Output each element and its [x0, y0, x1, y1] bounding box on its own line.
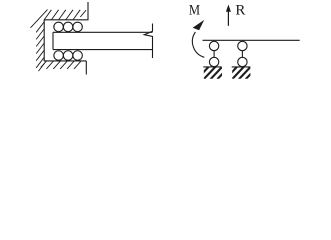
force R arrow shaft	[227, 11, 229, 26]
support 1 ground line	[203, 66, 221, 68]
floor hatching	[41, 61, 81, 69]
support 1 link	[213, 51, 215, 58]
support 2 link	[241, 51, 243, 58]
top roller 3	[73, 22, 83, 32]
svg-text:M: M	[189, 3, 200, 19]
bottom roller 1	[54, 51, 64, 61]
ceiling hatching	[31, 10, 87, 28]
beam left edge	[52, 32, 54, 49]
floor right edge	[85, 61, 87, 75]
beam top line	[53, 31, 153, 33]
wall hatching	[36, 22, 44, 71]
support 2 ground line	[232, 66, 251, 68]
svg-text:R: R	[235, 3, 245, 19]
support 2 bottom circle	[238, 57, 247, 66]
moment arc	[192, 32, 204, 57]
force R arrowhead	[226, 5, 231, 12]
wall line	[43, 20, 45, 61]
beam break symbol	[144, 24, 152, 59]
support 2 top circle	[238, 41, 247, 50]
ceiling right edge	[87, 2, 89, 20]
ceiling line	[44, 19, 89, 21]
floor line	[44, 60, 87, 62]
moment arrowhead	[193, 20, 205, 30]
top roller 1	[54, 22, 64, 32]
bottom roller 2	[63, 51, 73, 61]
support 1 ground hatch block	[197, 67, 229, 80]
beam bottom line	[53, 49, 153, 51]
top roller 2	[63, 22, 73, 32]
support 1 bottom circle	[209, 57, 218, 66]
support 1 top circle	[209, 41, 218, 50]
model beam line	[203, 39, 300, 41]
bottom roller 3	[73, 51, 83, 61]
support 2 ground hatch block	[225, 67, 257, 80]
